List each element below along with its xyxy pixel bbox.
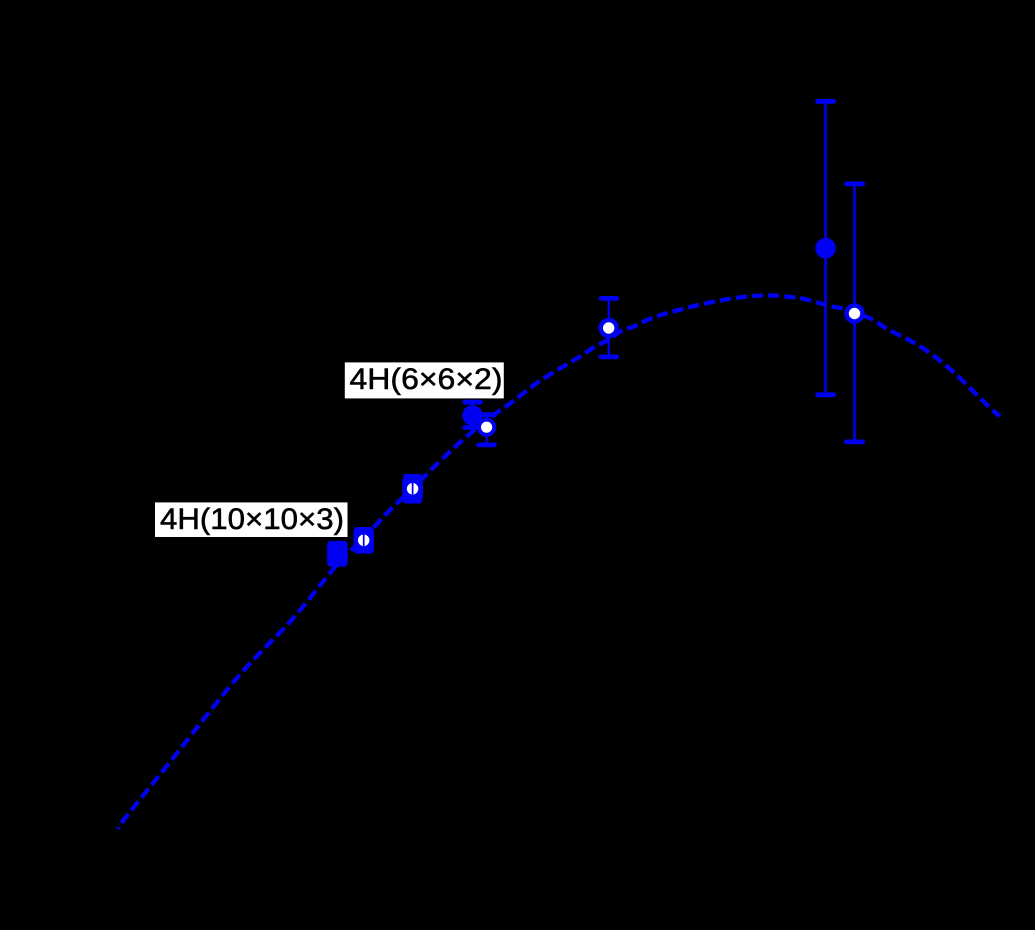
P6 error bar — [601, 298, 617, 357]
P2 square marker with open-circle overlay — [353, 530, 374, 551]
P5 open circle marker — [477, 418, 496, 437]
P7 error bar — [818, 101, 834, 395]
P4 4H(6x6x2) filled circle marker — [462, 405, 483, 426]
P8 open circle marker — [844, 303, 865, 324]
svg-text:4H(10×10×3): 4H(10×10×3) — [160, 503, 344, 536]
P6 open circle marker — [598, 318, 619, 339]
P3 error bar — [406, 476, 420, 501]
P7 filled circle marker — [815, 238, 836, 259]
P3 square marker with open-circle overlay — [402, 479, 423, 500]
svg-text:4H(6×6×2): 4H(6×6×2) — [350, 363, 503, 396]
P1 error bar — [330, 543, 344, 564]
P8 error bar — [846, 184, 862, 442]
label 4H(10x10x3) — [155, 502, 348, 537]
P4 error bar — [465, 402, 481, 427]
P2 error bar — [357, 529, 371, 551]
P1 4H(10x10x3) filled square marker — [327, 544, 348, 565]
fit curve (dashed) — [118, 295, 1000, 829]
P5 error bar — [479, 415, 495, 445]
label 4H(6x6x2) — [345, 362, 504, 398]
